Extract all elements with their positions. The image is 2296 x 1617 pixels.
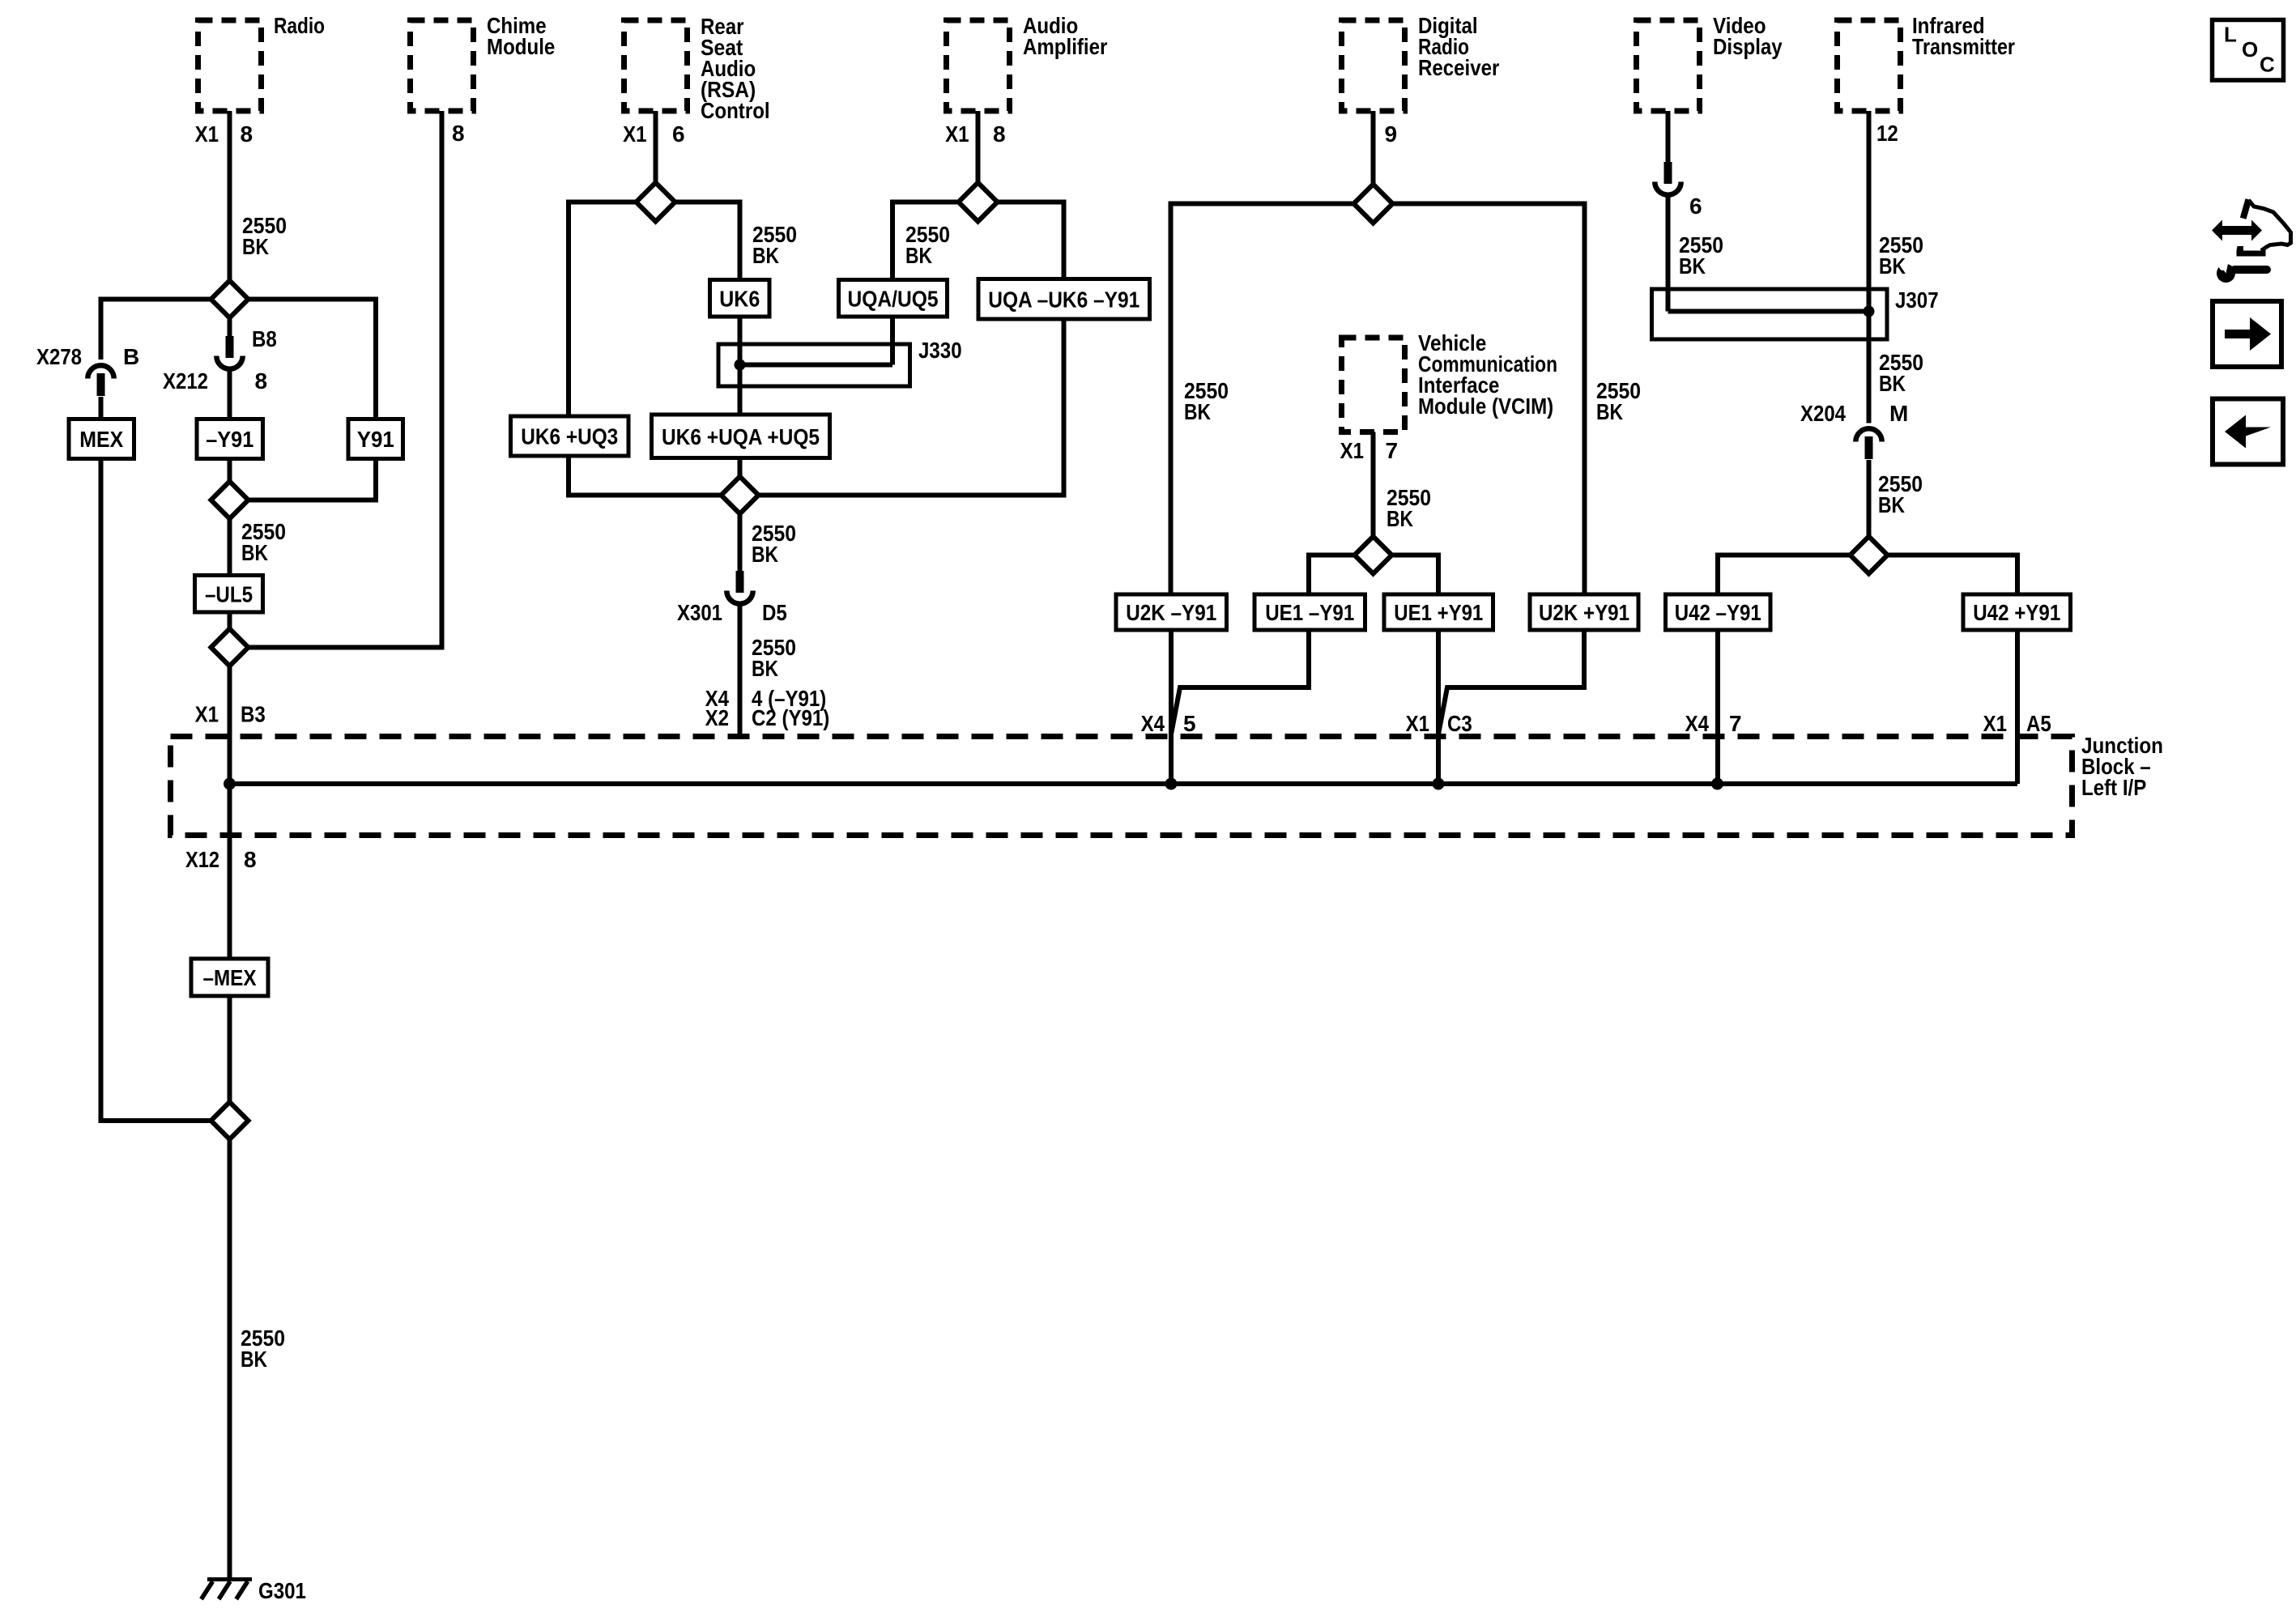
svg-text:–Y91: –Y91 (206, 427, 253, 452)
wire: U42 +Y91 down to bus end (2015, 630, 2020, 784)
svg-text:MEX: MEX (79, 427, 123, 452)
wire: S3 down through junction block to -MEX (228, 666, 232, 960)
svg-text:X1: X1 (1406, 711, 1429, 736)
splice diamond S5 (RSA) (637, 183, 675, 222)
wire: S7 left branch to UQA/UQ5 box (892, 202, 959, 280)
splice pack J307 internal bus (1668, 309, 1869, 314)
option box Y91 (348, 419, 403, 459)
svg-text:8: 8 (452, 121, 465, 146)
svg-text:Receiver: Receiver (1418, 55, 1499, 80)
option box UQA -UK6 -Y91 (978, 279, 1150, 320)
svg-text:9: 9 (1385, 121, 1398, 147)
wire: S4 down to ground G301 (228, 1139, 232, 1580)
wire: S2 to -UL5 (228, 519, 232, 576)
wire: chime module drop to S3 (249, 111, 442, 648)
splice pack J307 rectangle (1652, 289, 1888, 339)
wire: X212 to -Y91 box (228, 371, 232, 419)
svg-text:8: 8 (255, 368, 268, 394)
svg-text:B: B (123, 344, 139, 369)
option box UE1 +Y91 (1384, 594, 1493, 630)
svg-text:BK: BK (1879, 371, 1906, 396)
wire: UE1 +Y91 down to bus (1436, 630, 1441, 784)
splice diamond S2 (211, 482, 249, 519)
svg-text:X212: X212 (163, 368, 208, 394)
svg-text:C: C (2260, 53, 2275, 77)
svg-text:A5: A5 (2026, 711, 2051, 736)
option box UK6 +UQ3 (511, 416, 629, 456)
svg-text:U42 –Y91: U42 –Y91 (1675, 600, 1761, 625)
wire: Y91 down to splice 2 (249, 459, 377, 500)
svg-text:U42 +Y91: U42 +Y91 (1973, 600, 2060, 625)
wire: S9 left to UE1 -Y91 (1309, 555, 1355, 595)
svg-text:8: 8 (241, 121, 253, 147)
svg-text:Control: Control (701, 98, 770, 123)
component box: Video Display (dashed) (1637, 20, 1700, 111)
inline connector X301 D5 (736, 571, 744, 593)
svg-text:U2K +Y91: U2K +Y91 (1539, 600, 1629, 625)
splice pack J330 rectangle (718, 344, 910, 386)
svg-text:J330: J330 (918, 338, 962, 363)
svg-text:UQA –UK6 –Y91: UQA –UK6 –Y91 (988, 287, 1139, 312)
svg-text:D5: D5 (762, 600, 787, 625)
svg-text:Left I/P: Left I/P (2081, 775, 2146, 800)
wire: S5 left branch to UK6+UQ3 (569, 202, 637, 417)
svg-text:X1: X1 (195, 121, 219, 147)
junction dot in J330 (735, 360, 746, 371)
splice diamond S8 (DRR) (1354, 185, 1393, 223)
junction dot node at X1 B3 (224, 778, 236, 790)
vehicle data icon: lower bar (2237, 246, 2266, 257)
svg-text:–UL5: –UL5 (205, 581, 253, 606)
junction dot node at X4 5 (1165, 778, 1178, 790)
wire: Infrared Transmitter pin 12 down through J307 to X204 (1867, 111, 1872, 423)
svg-text:5: 5 (1183, 711, 1196, 736)
wire: S5 right branch to UK6 box (675, 202, 740, 280)
svg-text:X1: X1 (1983, 711, 2007, 736)
wire: U2K -Y91 down to bus (1169, 630, 1174, 784)
splice diamond S10 (IR) (1851, 537, 1888, 574)
wire: -UL5 to splice 3 (228, 612, 232, 629)
wire: Radio X1-8 down to splice (228, 111, 232, 281)
option box UK6 (710, 280, 770, 317)
wire: VCIM X1-7 down (1371, 432, 1376, 537)
vehicle data icon: car outline (2243, 199, 2249, 218)
component box: Chime Module (dashed) (411, 20, 474, 111)
wire: UK6+UQA+UQ5 to splice S6 (738, 458, 743, 477)
svg-text:Amplifier: Amplifier (1023, 34, 1107, 59)
svg-text:X1: X1 (1340, 438, 1364, 463)
svg-text:8: 8 (244, 847, 257, 872)
component box: Radio (dashed) (198, 20, 262, 111)
svg-text:Y91: Y91 (357, 427, 394, 452)
wire: UQA/UQ5 down into J330 (890, 317, 895, 365)
svg-text:12: 12 (1876, 121, 1898, 146)
svg-text:X12: X12 (185, 847, 219, 872)
svg-text:UE1 –Y91: UE1 –Y91 (1265, 600, 1354, 625)
bus wire inside junction block (230, 781, 2018, 786)
svg-text:X204: X204 (1800, 401, 1846, 426)
option box UQA/UQ5 (839, 280, 948, 317)
wire: S10 left to U42 -Y91 (1718, 555, 1851, 595)
svg-text:X278: X278 (36, 344, 82, 369)
svg-text:BK: BK (752, 656, 778, 681)
svg-text:6: 6 (1689, 194, 1702, 219)
forward arrow glyph (2225, 317, 2271, 351)
svg-text:X1: X1 (945, 121, 969, 147)
component box: Infrared Transmitter (dashed) (1838, 20, 1901, 111)
junction dot node at X1 C3 (1433, 778, 1445, 790)
wire: MEX down and right to bottom splice (101, 459, 211, 1121)
option box MEX (69, 419, 134, 459)
svg-text:C2 (Y91): C2 (Y91) (752, 705, 829, 730)
wire: S6 right branch up to UQA-UK6-Y91 (759, 319, 1064, 496)
option box U42 +Y91 (1963, 594, 2071, 630)
svg-text:UE1 +Y91: UE1 +Y91 (1394, 600, 1483, 625)
wire: splice to X212 (228, 318, 232, 338)
svg-text:Module (VCIM): Module (VCIM) (1418, 394, 1553, 419)
junction dot in J307 (1864, 306, 1875, 317)
wire: S6 down to X301 (738, 514, 743, 572)
splice diamond S7 (Audio Amp) (959, 183, 998, 222)
svg-text:X2: X2 (705, 705, 729, 730)
wire: U2K +Y91 jog to UE1+Y91 wire (1438, 630, 1584, 734)
inline connector X204 M (1855, 428, 1881, 441)
inline connector X278 B (87, 365, 113, 378)
svg-text:X4: X4 (1141, 711, 1165, 736)
svg-text:Module: Module (487, 34, 555, 59)
wire: splice to X278 branch (101, 300, 211, 360)
svg-text:BK: BK (1184, 399, 1211, 424)
component box: Vehicle Communication Interface Module VCIM (dashed) (1342, 338, 1405, 432)
svg-text:L: L (2224, 23, 2237, 47)
ground symbol G301 (207, 1577, 252, 1581)
option box UE1 -Y91 (1254, 594, 1365, 630)
svg-text:U2K –Y91: U2K –Y91 (1126, 600, 1216, 625)
svg-text:BK: BK (1879, 253, 1906, 279)
vehicle data icon: double arrow (2212, 220, 2262, 241)
splice diamond S1 (211, 281, 249, 318)
svg-text:BK: BK (1596, 399, 1623, 424)
wire: S10 right to U42 +Y91 (1888, 555, 2018, 595)
svg-text:BK: BK (1878, 492, 1905, 517)
wire: S8 left long branch to U2K -Y91 (1171, 204, 1354, 595)
option box U2K -Y91 (1116, 594, 1227, 630)
wire: X278 to MEX (99, 397, 104, 419)
inline connector pin 6 (Video Display) (1664, 162, 1672, 184)
wire: S6 left branch to UK6+UQ3 (569, 456, 722, 496)
component box: Digital Radio Receiver (dashed) (1342, 20, 1405, 111)
svg-text:UK6 +UQ3: UK6 +UQ3 (521, 424, 618, 449)
svg-text:BK: BK (242, 234, 269, 259)
splice pack J330 internal bus (740, 363, 893, 368)
svg-text:6: 6 (672, 121, 685, 147)
wire: S8 right long branch to U2K +Y91 (1393, 204, 1585, 595)
component box: Rear Seat Audio (RSA) Control (dashed) (624, 20, 688, 111)
svg-text:BK: BK (752, 243, 779, 268)
wire: S9 right to UE1 +Y91 (1392, 555, 1439, 595)
back arrow box (2213, 399, 2283, 465)
svg-text:Display: Display (1713, 34, 1783, 59)
svg-text:Radio: Radio (274, 13, 325, 38)
svg-text:–MEX: –MEX (203, 965, 257, 990)
svg-text:BK: BK (752, 542, 778, 567)
back arrow glyph (2225, 415, 2271, 449)
svg-text:7: 7 (1729, 711, 1742, 736)
svg-text:BK: BK (241, 540, 268, 565)
wire: S7 right branch to UQA-UK6-Y91 box (998, 202, 1064, 279)
svg-text:BK: BK (1387, 506, 1413, 531)
option box -Y91 (197, 419, 263, 459)
svg-text:UQA/UQ5: UQA/UQ5 (848, 286, 939, 311)
wire: X204 to splice S10 (1867, 460, 1872, 537)
svg-text:7: 7 (1386, 438, 1399, 463)
svg-text:X1: X1 (623, 121, 646, 147)
wire: RSA control X1-6 down (654, 111, 658, 183)
svg-text:Transmitter: Transmitter (1912, 34, 2015, 59)
svg-text:UK6 +UQA +UQ5: UK6 +UQA +UQ5 (662, 424, 820, 449)
svg-text:X1: X1 (195, 702, 219, 727)
wire: Audio Amplifier X1-8 down (976, 111, 981, 183)
wire: -Y91 down to splice 2 (228, 459, 232, 482)
wire: UE1 -Y91 jog to U2K-Y91 wire (1171, 630, 1309, 734)
option box U42 -Y91 (1666, 594, 1771, 630)
splice diamond S6 (722, 477, 759, 514)
option box -MEX (191, 959, 268, 996)
wire: X301 to junction block X4/X2 (738, 606, 743, 737)
svg-text:BK: BK (905, 243, 932, 268)
svg-text:UK6: UK6 (719, 286, 760, 311)
svg-text:X4: X4 (1685, 711, 1710, 736)
component box: Junction Block - Left I/P (dashed) (171, 737, 2072, 836)
junction dot node at X4 7 (1711, 778, 1723, 790)
LOC reference box (2213, 20, 2284, 81)
splice diamond S4 (211, 1102, 249, 1139)
svg-text:X301: X301 (677, 600, 722, 625)
svg-text:8: 8 (993, 121, 1006, 147)
option box -UL5 (195, 576, 263, 613)
option box U2K +Y91 (1530, 594, 1638, 630)
svg-text:M: M (1889, 401, 1908, 426)
svg-text:J307: J307 (1895, 287, 1939, 313)
svg-text:BK: BK (1679, 253, 1706, 279)
component box: Audio Amplifier (dashed) (947, 20, 1010, 111)
svg-text:G301: G301 (258, 1578, 306, 1603)
wire: -MEX to bottom splice (228, 996, 232, 1103)
wire: Video Display down to connector (1666, 111, 1671, 163)
svg-text:C3: C3 (1447, 711, 1472, 736)
svg-text:O: O (2242, 37, 2258, 62)
wire: video connector down into J307 (1666, 197, 1671, 312)
inline connector X212 B8 (226, 336, 234, 358)
svg-text:BK: BK (241, 1347, 267, 1372)
option box UK6 +UQA +UQ5 (652, 415, 830, 458)
forward arrow box (2213, 301, 2281, 367)
wire: U42 -Y91 down to bus (1715, 630, 1720, 784)
wire: splice right branch to Y91 box (249, 300, 377, 419)
svg-text:B8: B8 (252, 326, 277, 351)
wire: Digital Radio Receiver pin 9 down (1371, 111, 1376, 185)
wire: UK6 box through J330 to UK6+UQA+UQ5 box (738, 317, 743, 415)
splice diamond S3 (211, 629, 249, 666)
vehicle data icon: wrench (2217, 264, 2235, 283)
splice diamond S9 (VCIM) (1355, 537, 1392, 574)
svg-text:B3: B3 (241, 702, 266, 727)
